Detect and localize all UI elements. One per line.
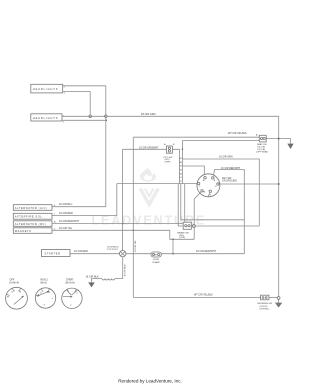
wire strip to key B net — [181, 184, 245, 220]
svg-text:L6: L6 — [180, 177, 182, 179]
svg-text:(OFF SEAT): (OFF SEAT) — [256, 151, 268, 154]
ground symbol right edge — [275, 299, 282, 307]
node dot kill tap — [172, 238, 174, 240]
wire vertical v1 headlights to alternator AC — [105, 86, 107, 207]
harness connector strip — [179, 141, 183, 184]
wire key A to strip — [183, 166, 204, 176]
svg-text:16 CIR BLK: 16 CIR BLK — [86, 275, 100, 278]
wire key B to battery feed — [213, 167, 244, 254]
wire 18 CIR GRN bus — [62, 112, 279, 116]
watermark flame logo — [140, 168, 156, 182]
wire 10 CIR RED starter to solenoid — [70, 250, 120, 254]
alternator (A/C) box — [13, 205, 52, 211]
svg-text:WT CIR YEL/BLK: WT CIR YEL/BLK — [194, 294, 213, 297]
wire headlight1 pin1 down to green bus — [63, 92, 90, 116]
node diamond marker on green bus — [104, 115, 107, 118]
wire key G to right edge — [220, 183, 279, 185]
wire 16 CIR YEL magneto kill — [52, 227, 194, 240]
wire 22 CIR BLU alternator AC — [52, 203, 106, 207]
wire 16 CIR GRN strip to brake net — [183, 155, 260, 226]
wire headlight2 pin1 — [62, 119, 106, 121]
ground symbol left — [88, 282, 95, 287]
svg-text:16 CIR GRN: 16 CIR GRN — [219, 155, 233, 158]
node dot seat on right edge — [278, 138, 280, 140]
wire 16 CIR RED afterfire — [52, 184, 117, 216]
svg-text:M5: M5 — [180, 173, 183, 175]
footer rendered-by text — [118, 379, 182, 384]
svg-text:16 CIR RED/WHT: 16 CIR RED/WHT — [196, 250, 217, 253]
svg-text:(OFF): (OFF) — [165, 162, 171, 164]
magneto box — [13, 228, 52, 234]
node junction circle headlight join — [89, 115, 92, 118]
svg-text:ALTERNATOR (A/C): ALTERNATOR (A/C) — [15, 206, 48, 210]
wire reverse switch net — [133, 294, 260, 298]
svg-text:STARTER: STARTER — [45, 252, 61, 256]
ignition position START circle — [62, 279, 82, 309]
wire strip to brake left pin — [178, 184, 183, 226]
svg-text:G4: G4 — [180, 170, 183, 172]
wire solenoid to fuse — [126, 253, 151, 255]
svg-text:MAGNETO: MAGNETO — [15, 229, 32, 233]
svg-text:AFTERFIRE SOL.: AFTERFIRE SOL. — [15, 215, 44, 219]
headlight H1 box — [31, 84, 66, 94]
wire seat switch net — [133, 132, 259, 140]
svg-text:G: G — [215, 186, 217, 188]
svg-text:J7: J7 — [180, 181, 182, 183]
seat switch connector — [256, 135, 268, 153]
wire key L to afterfire — [117, 183, 197, 185]
svg-text:FUSE: FUSE — [153, 259, 159, 261]
node junction circle brake — [192, 225, 195, 228]
svg-text:A2: A2 — [180, 161, 182, 164]
ignition position OFF circle — [6, 279, 28, 310]
svg-text:18 CIR GRN: 18 CIR GRN — [141, 112, 156, 116]
wire seat to ground — [266, 139, 290, 144]
svg-text:Rendered by LeadVenture, Inc.: Rendered by LeadVenture, Inc. — [118, 379, 182, 384]
alternator (DC) box — [13, 221, 52, 227]
svg-text:(OFF): (OFF) — [179, 237, 185, 239]
svg-text:S3: S3 — [180, 166, 182, 168]
afterfire sol box — [13, 213, 52, 219]
node dot DC wire on battery vertical — [122, 223, 124, 225]
svg-text:(B+A): (B+A) — [41, 282, 47, 285]
wire kill vertical v4 — [133, 137, 137, 297]
wire 16 CIR RED/WHT alternator DC to brake switch — [52, 220, 183, 224]
svg-text:16 CIR RED/WHT: 16 CIR RED/WHT — [59, 220, 80, 223]
svg-text:ON GROUND: ON GROUND — [222, 179, 237, 182]
wire battery vertical below solenoid to ground coil — [115, 257, 127, 279]
svg-text:M: M — [7, 296, 9, 298]
watermark V mark — [140, 189, 158, 205]
node dot G at right edge — [278, 183, 280, 185]
wire brake to 16 CIR GRN vertical — [191, 225, 259, 227]
fuse F1 20A — [151, 252, 161, 264]
node dot magneto/kill vertical — [132, 229, 134, 231]
wire fuse to key B feed — [161, 250, 244, 254]
svg-text:(IN FWD): (IN FWD) — [260, 308, 270, 310]
watermark text LEADVENTURE — [91, 213, 206, 227]
svg-text:(B+S+A): (B+S+A) — [66, 282, 75, 285]
PTO switch connector — [164, 143, 175, 163]
wire right edge ground bus — [278, 116, 280, 297]
wire key S stub — [208, 193, 210, 197]
headlight H2 box — [31, 114, 65, 124]
svg-text:16 CIR RED: 16 CIR RED — [59, 212, 73, 215]
wire battery vertical solenoid to PTO feed — [122, 149, 124, 250]
svg-text:HEADLIGHTS: HEADLIGHTS — [33, 116, 59, 120]
svg-text:20 AMP: 20 AMP — [152, 261, 160, 264]
key switch U1 — [197, 174, 237, 197]
svg-text:16 CIR RED/WHT: 16 CIR RED/WHT — [221, 167, 241, 170]
svg-text:B1: B1 — [180, 158, 182, 160]
wire strip to brake top — [184, 184, 186, 223]
wire headlight1 pin2 to vertical — [63, 85, 106, 87]
reverse switch connector — [258, 295, 274, 310]
svg-text:10 CIR RED: 10 CIR RED — [74, 250, 88, 253]
svg-text:10 CIR RED: 10 CIR RED — [125, 264, 127, 276]
inductor coil to ground — [86, 275, 115, 282]
wire key M down to kill — [194, 192, 201, 239]
svg-text:HEADLIGHTS: HEADLIGHTS — [33, 87, 59, 91]
wire PTO to harness strip — [172, 149, 179, 156]
node junction circle reverse/right edge — [269, 297, 280, 300]
svg-text:22 CIR BLU: 22 CIR BLU — [59, 203, 73, 206]
ground symbol seat — [287, 144, 293, 149]
svg-text:16 CIR YEL: 16 CIR YEL — [59, 227, 73, 230]
svg-text:ALTERNATOR (DC): ALTERNATOR (DC) — [15, 222, 46, 226]
starter box — [42, 250, 71, 257]
svg-text:16 CIR GRN/WHT: 16 CIR GRN/WHT — [139, 146, 159, 149]
wire kill tap down to starter feed — [172, 239, 174, 253]
brake switch connector — [177, 222, 191, 239]
svg-text:WT CIR YEL/BLK: WT CIR YEL/BLK — [228, 132, 247, 135]
node dot at vertical/pin1 — [105, 119, 107, 121]
ignition position RUN circle — [35, 279, 55, 309]
svg-text:(G+M+A): (G+M+A) — [9, 282, 19, 285]
svg-text:M: M — [203, 192, 205, 194]
node dot on starter feed — [172, 253, 174, 255]
svg-text:16 CIR YEL: 16 CIR YEL — [135, 239, 137, 251]
solenoid top post node — [107, 246, 126, 257]
wire 16 CIR GRN/WHT to PTO switch — [123, 146, 167, 149]
svg-text:TOP POST: TOP POST — [107, 249, 119, 251]
